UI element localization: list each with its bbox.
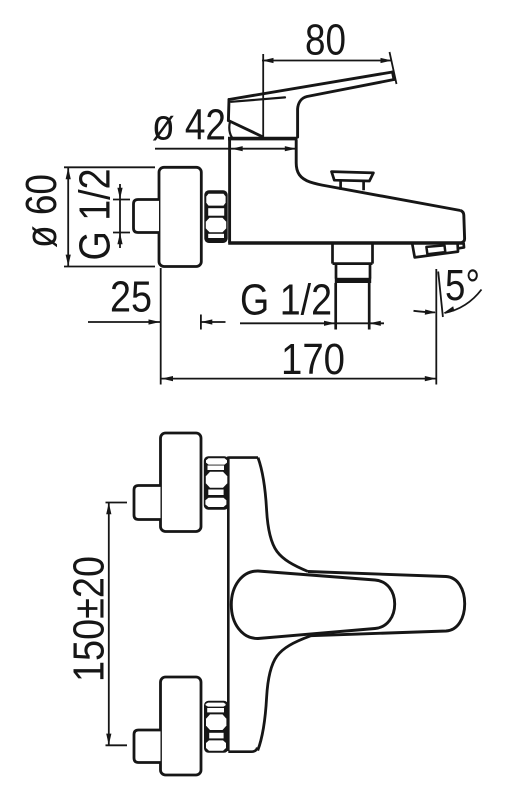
ø42 left arrow xyxy=(231,146,243,151)
body back edge (vertical) xyxy=(227,457,230,752)
shower outlet pipe xyxy=(336,283,370,330)
25 arrow at flange rear xyxy=(149,319,161,324)
shower outlet upper section xyxy=(333,244,373,264)
wall flange (side view) xyxy=(159,167,201,266)
lever bottom edge and neck xyxy=(298,80,394,138)
mounting nut (side view) xyxy=(204,190,227,243)
dimension G 1/2 (wall pipe) line xyxy=(119,184,121,248)
lever back corner arc xyxy=(229,123,232,138)
lever grip (front view) xyxy=(231,571,394,639)
cartridge cap top line xyxy=(228,137,298,141)
dimension 170 line xyxy=(161,378,437,380)
extension line at flange rear (shared 25/170) xyxy=(160,268,162,385)
dimension 25 left line xyxy=(88,321,160,323)
150±20 bottom arrow xyxy=(106,734,111,746)
lever back crease line xyxy=(231,97,285,101)
lever tip face xyxy=(393,72,395,80)
svg-text:5°: 5° xyxy=(445,261,480,310)
top wall flange (front view) xyxy=(161,433,202,532)
5 degree reference vertical line xyxy=(435,269,437,385)
faucet body bottom edge xyxy=(228,241,463,245)
lever top edge xyxy=(229,72,393,100)
extension line pipe bottom xyxy=(113,232,130,234)
ø60 top arrow xyxy=(66,168,71,180)
dimension ø60 extension top xyxy=(64,166,155,168)
G 1/2 left arrow xyxy=(324,321,336,326)
170 right arrow xyxy=(425,376,437,381)
G 1/2 bottom arrow xyxy=(117,233,122,245)
svg-text:ø 60: ø 60 xyxy=(17,174,66,248)
body lower right profile xyxy=(258,636,311,751)
svg-text:170: 170 xyxy=(281,335,345,384)
lever back edge xyxy=(227,100,231,121)
body upper right profile xyxy=(258,458,308,572)
shower outlet middle section xyxy=(336,264,370,279)
G 1/2 right arrow xyxy=(369,321,381,326)
5 degree left tail with arrow xyxy=(414,311,436,313)
extension line at bottom pipe centre xyxy=(106,744,128,746)
extension line pipe top xyxy=(113,199,130,201)
bottom wall flange (front view) xyxy=(161,677,202,775)
dimension G 1/2 line xyxy=(240,322,384,324)
5 degree tilted line xyxy=(438,272,443,318)
dimension ø42 line xyxy=(155,148,297,150)
faucet body top-right profile xyxy=(296,140,460,211)
lever blade (front view) xyxy=(308,572,465,636)
svg-text:ø 42: ø 42 xyxy=(152,101,226,150)
G 1/2 top arrow xyxy=(117,188,122,200)
svg-text:G 1/2: G 1/2 xyxy=(240,276,332,325)
aerator under spout xyxy=(412,244,458,258)
dimension 80 right arrow xyxy=(381,58,393,63)
ø42 right arrow xyxy=(285,146,297,151)
170 left arrow xyxy=(162,376,174,381)
dimension 80 left arrow xyxy=(262,58,274,63)
svg-text:25: 25 xyxy=(110,273,152,322)
faucet body left edge xyxy=(228,138,231,243)
150±20 top arrow xyxy=(106,503,111,515)
svg-text:150±20: 150±20 xyxy=(65,556,114,682)
25 arrow at flange front xyxy=(201,319,213,324)
lever lower back slant xyxy=(228,121,262,137)
aerator inner detail xyxy=(426,245,445,254)
dimension ø60 line xyxy=(67,167,69,266)
extension line at top pipe centre xyxy=(106,502,128,504)
top mounting nut (front view) xyxy=(204,456,229,509)
svg-text:G 1/2: G 1/2 xyxy=(71,169,120,261)
5 degree right tail arc with arrow xyxy=(445,290,482,314)
ø60 bottom arrow xyxy=(66,255,71,267)
dimension 150±20 line xyxy=(108,503,110,746)
bottom wall pipe (front view) xyxy=(134,730,161,763)
top wall pipe (front view) xyxy=(134,486,161,520)
lever handle (side view) xyxy=(228,72,394,138)
dimension 80 line xyxy=(262,60,392,62)
body top edge xyxy=(228,456,258,459)
dimension ø60 extension bottom xyxy=(64,266,155,268)
dimension 25 right line xyxy=(201,321,226,323)
body bottom edge xyxy=(228,748,257,752)
diverter knob cap xyxy=(332,172,374,181)
svg-text:80: 80 xyxy=(305,16,346,65)
extension line left of 80 xyxy=(262,54,264,137)
extension stub at flange front xyxy=(200,315,202,330)
aerator right step xyxy=(458,243,464,248)
shower outlet o-ring band xyxy=(335,278,371,283)
extension line right of 80 (slanted at lever tip) xyxy=(390,52,397,84)
bottom mounting nut (front view) xyxy=(204,701,228,753)
faucet body right end xyxy=(461,211,465,243)
wall pipe (side view) xyxy=(134,200,160,233)
diverter knob stem xyxy=(341,181,364,190)
